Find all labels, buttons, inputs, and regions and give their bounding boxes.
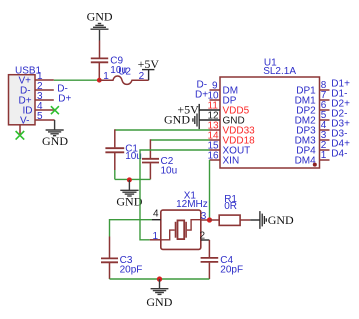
connector USB1 (9, 75, 36, 125)
svg-text:4: 4 (153, 209, 159, 220)
pin 2 of X1 (201, 239, 210, 241)
pin 1 of X1 (150, 239, 161, 241)
pin 12 GND (199, 119, 220, 121)
pin 5 DM2 (320, 119, 330, 121)
pin 2 DP4 (320, 149, 330, 151)
wire crystal pin4 to C3 top (110, 220, 152, 237)
svg-text:GND: GND (42, 134, 68, 148)
power +5V at pin 11 (bar style) (198, 104, 200, 111)
pin 1 DM4 (320, 159, 330, 161)
wire XIN pin16 down to crystal pin3 junction (209, 160, 211, 220)
pin 15 XOUT (210, 149, 221, 151)
power +5V top (bar style) (142, 70, 154, 81)
pin 14 VDD18 (210, 139, 221, 141)
svg-text:GND: GND (116, 194, 142, 208)
svg-text:12MHz: 12MHz (176, 199, 208, 210)
chip U1 SL2.1A (220, 77, 320, 168)
svg-text:3: 3 (201, 211, 207, 222)
no-connect X on shield (16, 131, 25, 140)
ground GND bottom center (151, 279, 169, 294)
svg-text:1: 1 (103, 71, 109, 82)
resistor R1 (210, 219, 220, 221)
capacitor C1 (105, 129, 124, 170)
svg-text:GND: GND (146, 295, 172, 309)
capacitor C4 (201, 258, 219, 262)
pin 3 D+ (35, 99, 54, 101)
node junction C9 / U2 (97, 78, 102, 83)
svg-text:+5V: +5V (138, 57, 160, 71)
svg-text:XIN: XIN (223, 156, 240, 167)
capacitor C3 (109, 237, 111, 258)
wire C1 bottom (114, 170, 116, 179)
pin 11 VDD5 (199, 109, 220, 111)
pin 10 DP (210, 99, 221, 101)
wire XOUT pin15 to crystal pin1 (140, 150, 210, 240)
ground GND top power port (91, 24, 109, 41)
svg-text:2: 2 (139, 71, 145, 82)
ground GND right of R1 (sideways earth) (260, 211, 266, 229)
svg-text:V-: V- (20, 116, 29, 127)
svg-text:GND: GND (268, 213, 294, 227)
svg-text:5: 5 (37, 111, 43, 122)
node junction crystal pin3 / R1 / XIN (207, 217, 212, 222)
svg-text:1: 1 (153, 231, 159, 242)
ground GND below C1/C2 (120, 180, 138, 196)
pin 4 ID (35, 109, 54, 111)
crystal X1 internal symbol (161, 220, 201, 240)
pin 13 VDD33 (210, 129, 221, 131)
svg-text:1: 1 (321, 150, 327, 161)
svg-text:20pF: 20pF (220, 264, 243, 275)
node junction bottom ground (157, 276, 162, 281)
wire USB V+ to C9 junction (54, 79, 100, 81)
svg-text:D+: D+ (58, 94, 71, 105)
node stray junction dot near DM4 (313, 163, 317, 167)
svg-text:GND: GND (164, 113, 190, 127)
node junction C1/C2 ground (127, 177, 132, 182)
crystal X1 body (161, 210, 201, 249)
pin 4 of X1 (152, 219, 161, 221)
ground GND at pin 12 (sideways earth) (193, 111, 199, 129)
pin 1 V+ (35, 79, 54, 81)
no-connect X on pin 4 (51, 106, 59, 114)
pin 4 DP3 (320, 129, 330, 131)
wire C1/C2 bottom bus (115, 178, 151, 180)
pin 3 DM3 (320, 139, 330, 141)
pin 3 of X1 (201, 219, 210, 221)
wire R1 to ground (250, 219, 260, 221)
pin 16 XIN (210, 159, 221, 161)
inductor U2 (99, 76, 148, 84)
capacitor C9 (91, 41, 108, 81)
svg-text:SL2.1A: SL2.1A (263, 66, 296, 77)
pin 5 V- (35, 119, 55, 121)
pin 9 DM (210, 89, 221, 91)
wire VDD18 pin14 to C2 (150, 139, 209, 141)
capacitor C2 (142, 139, 159, 179)
shield pin stub (19, 125, 21, 135)
ground GND below USB1 (46, 120, 64, 136)
pin 8 DP1 (320, 89, 330, 91)
svg-text:2: 2 (200, 231, 206, 242)
svg-text:10u: 10u (161, 166, 178, 177)
wire crystal pin2 down to C4 (208, 240, 210, 257)
svg-text:D4-: D4- (331, 148, 347, 159)
svg-text:U2: U2 (118, 67, 131, 78)
wire bottom ground bus (110, 278, 210, 280)
pin 2 D- (35, 89, 54, 91)
wire VDD33 pin13 to C1 (115, 129, 210, 131)
svg-text:20pF: 20pF (120, 264, 143, 275)
svg-text:0R: 0R (224, 201, 237, 212)
pin 7 DM1 (320, 99, 330, 101)
svg-text:D+: D+ (195, 89, 208, 100)
svg-text:16: 16 (208, 150, 220, 161)
pin 6 DP2 (320, 109, 330, 111)
svg-text:GND: GND (87, 9, 113, 23)
